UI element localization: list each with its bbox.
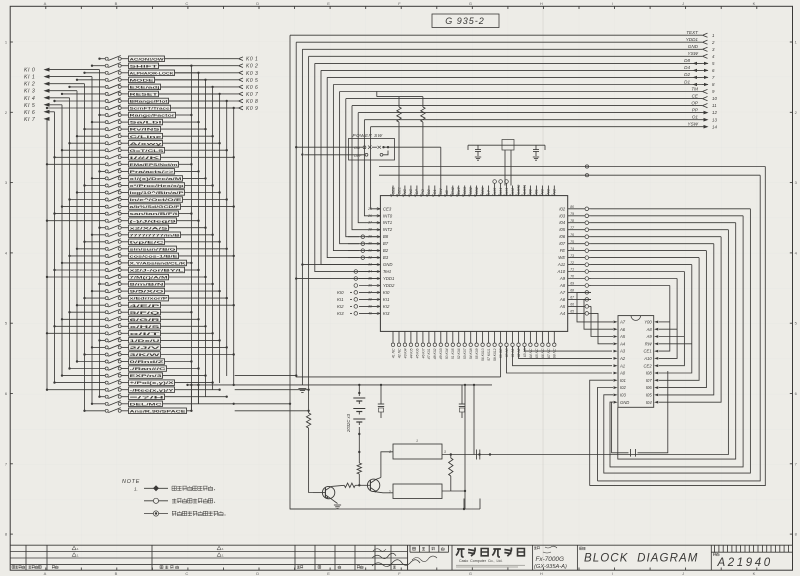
svg-text:OP: OP <box>415 189 419 195</box>
svg-text:68 NC: 68 NC <box>553 348 557 358</box>
svg-text:NC: NC <box>547 189 551 195</box>
svg-text:A/xwy: A/xwy <box>130 142 162 146</box>
svg-text:FE: FE <box>560 248 566 253</box>
svg-text:Sa/Lbl: Sa/Lbl <box>130 121 162 125</box>
svg-text:EMa/EPS/Not/m: EMa/EPS/Not/m <box>130 163 178 167</box>
svg-text:A10: A10 <box>557 269 566 274</box>
svg-text:E: E <box>327 1 330 6</box>
svg-text:12: 12 <box>461 194 465 198</box>
svg-text:WE: WE <box>558 255 565 260</box>
svg-text:K0 2: K0 2 <box>246 64 258 70</box>
svg-text:K: K <box>753 1 756 6</box>
svg-text:14: 14 <box>712 124 717 129</box>
svg-text:OP: OP <box>691 100 699 105</box>
svg-text:3: 3 <box>444 450 446 454</box>
svg-text:G 935-2: G 935-2 <box>445 16 485 26</box>
svg-text:x2/X/A/S: x2/X/A/S <box>130 226 170 230</box>
svg-text:A: A <box>44 571 47 576</box>
svg-text:A8: A8 <box>559 283 566 288</box>
svg-text:I08: I08 <box>646 371 652 376</box>
svg-text:O1: O1 <box>433 189 437 194</box>
svg-text:K0 8: K0 8 <box>246 99 258 105</box>
svg-text:KI3: KI3 <box>383 311 390 316</box>
svg-text:67 NC: 67 NC <box>547 348 551 358</box>
svg-text:2: 2 <box>711 40 715 45</box>
svg-text:2/J/V: 2/J/V <box>130 346 162 350</box>
svg-text:A6: A6 <box>619 327 626 332</box>
svg-text:A7: A7 <box>559 290 566 295</box>
svg-text:B8: B8 <box>383 234 389 239</box>
svg-text:21: 21 <box>407 194 411 199</box>
svg-text:x/Edr/xor/P: x/Edr/xor/P <box>130 297 169 301</box>
svg-text:12: 12 <box>712 110 717 115</box>
svg-text:5/F/Q: 5/F/Q <box>130 311 161 315</box>
svg-text:KI 2: KI 2 <box>24 82 35 88</box>
svg-text:G=T/CLS: G=T/CLS <box>130 149 165 153</box>
svg-text:B7: B7 <box>383 241 389 246</box>
svg-text:41 NC: 41 NC <box>391 348 395 358</box>
svg-text:KI2: KI2 <box>337 304 344 309</box>
svg-text:48 K02: 48 K02 <box>433 348 437 359</box>
svg-text:MODE: MODE <box>130 78 156 82</box>
svg-text:x2/J-/or/BY/L: x2/J-/or/BY/L <box>130 269 186 273</box>
svg-text:CB2: CB2 <box>469 186 473 194</box>
svg-text:x*/Proc/Hex/x/p: x*/Proc/Hex/x/p <box>130 184 184 188</box>
svg-text:INT2: INT2 <box>383 227 393 232</box>
svg-text:D2: D2 <box>684 72 690 77</box>
svg-text:AC/ON!/OW: AC/ON!/OW <box>130 57 165 61</box>
svg-text:22: 22 <box>401 194 405 199</box>
svg-text:7777/7777/in/B: 7777/7777/in/B <box>130 233 181 237</box>
svg-text:A4: A4 <box>559 311 566 316</box>
svg-text:GND: GND <box>620 400 629 405</box>
svg-text:+/Pol(x,y)/X: +/Pol(x,y)/X <box>130 381 176 385</box>
svg-text:ln/e^/Oct/O/E: ln/e^/Oct/O/E <box>130 198 184 202</box>
svg-text:19: 19 <box>419 194 423 198</box>
svg-text:KI 3: KI 3 <box>24 89 35 95</box>
svg-text:K0 6: K0 6 <box>246 85 258 91</box>
svg-text:ALPHA/OR-LOCK: ALPHA/OR-LOCK <box>130 71 175 75</box>
svg-text:D: D <box>256 571 259 576</box>
svg-text:C: C <box>185 1 188 6</box>
svg-text:RW: RW <box>645 341 653 346</box>
svg-text:GND: GND <box>383 262 393 267</box>
svg-text:1: 1 <box>416 439 418 443</box>
svg-text:A4: A4 <box>619 341 626 346</box>
svg-text:(-)/J/deg/9: (-)/J/deg/9 <box>130 219 176 223</box>
svg-text:I02: I02 <box>620 385 626 390</box>
svg-text:./Ran#/C: ./Ran#/C <box>130 367 167 371</box>
svg-text:11: 11 <box>712 103 717 108</box>
svg-text:-/Rec(x,y)/Y: -/Rec(x,y)/Y <box>130 388 176 392</box>
svg-text:A0: A0 <box>619 371 626 376</box>
svg-text:27: 27 <box>367 221 372 225</box>
svg-text:2032C x3: 2032C x3 <box>346 413 351 433</box>
svg-text:H: H <box>540 571 543 576</box>
svg-text:2: 2 <box>521 194 525 197</box>
svg-text:A1: A1 <box>619 363 625 368</box>
svg-text:Y00: Y00 <box>644 320 652 325</box>
svg-text:4/E/P: 4/E/P <box>130 304 162 308</box>
svg-text:O1: O1 <box>692 115 699 120</box>
svg-text:I01: I01 <box>535 189 539 194</box>
svg-text:D4: D4 <box>684 65 690 70</box>
svg-text:2: 2 <box>388 490 391 494</box>
svg-text:YDD1: YDD1 <box>383 276 395 281</box>
svg-text:NC: NC <box>541 189 545 195</box>
svg-text:RESET: RESET <box>130 93 160 97</box>
svg-text:A9: A9 <box>559 276 566 281</box>
svg-text:Fx-7000G: Fx-7000G <box>536 556 564 563</box>
svg-text:Rv/INS: Rv/INS <box>130 128 162 132</box>
svg-text:KI1: KI1 <box>337 297 344 302</box>
svg-text:J: J <box>682 1 684 6</box>
svg-text:28: 28 <box>367 228 372 232</box>
svg-text:26: 26 <box>367 214 372 218</box>
svg-text:(GX-935A-A): (GX-935A-A) <box>534 564 567 570</box>
svg-text:san/tan/B/F/t: san/tan/B/F/t <box>130 212 180 216</box>
svg-text:OST1: OST1 <box>523 185 527 195</box>
svg-text:EXE/adj: EXE/adj <box>130 86 160 90</box>
svg-text:x/H/S: x/H/S <box>130 325 162 329</box>
svg-text:D: D <box>256 1 259 6</box>
svg-text:I00: I00 <box>529 188 533 194</box>
svg-text:POWER SW: POWER SW <box>353 133 383 138</box>
svg-text:CB1: CB1 <box>481 187 485 194</box>
svg-text:J: J <box>682 571 684 576</box>
svg-text:E: E <box>327 571 330 576</box>
svg-text:42 NC: 42 NC <box>397 348 401 358</box>
svg-text:14: 14 <box>449 194 453 198</box>
svg-text:CE1: CE1 <box>397 187 401 194</box>
svg-text:i/#/K: i/#/K <box>130 156 162 160</box>
svg-text:A: A <box>44 1 47 6</box>
svg-text:13: 13 <box>455 194 459 198</box>
svg-text:45 KI6: 45 KI6 <box>415 348 419 358</box>
svg-text:I04: I04 <box>646 400 652 405</box>
svg-text:A10: A10 <box>643 356 652 361</box>
svg-text:65 NC: 65 NC <box>535 348 539 358</box>
svg-text:10: 10 <box>712 96 717 101</box>
svg-text:YSW: YSW <box>688 51 699 56</box>
svg-text:KI0: KI0 <box>383 290 390 295</box>
svg-text:K0 5: K0 5 <box>246 78 258 84</box>
svg-text:KI 6: KI 6 <box>24 110 35 116</box>
svg-text:YDD2: YDD2 <box>383 283 395 288</box>
svg-text:YDD1: YDD1 <box>686 37 699 42</box>
svg-text:18: 18 <box>425 194 429 198</box>
svg-text:KI2: KI2 <box>383 304 390 309</box>
svg-text:G: G <box>469 1 472 6</box>
svg-text:cos/cos-1/B/E: cos/cos-1/B/E <box>130 255 179 259</box>
svg-text:23: 23 <box>395 194 399 199</box>
svg-text:15: 15 <box>443 194 447 198</box>
svg-text:A11: A11 <box>557 262 566 267</box>
svg-text:ON: ON <box>354 146 360 150</box>
svg-text:D1: D1 <box>684 79 690 84</box>
svg-text:53 K07: 53 K07 <box>463 348 467 359</box>
svg-text:I06: I06 <box>646 385 652 390</box>
svg-text:I03: I03 <box>559 213 566 218</box>
svg-text:52 K06: 52 K06 <box>457 348 461 359</box>
svg-text:TM: TM <box>691 86 698 91</box>
svg-text:56 K010: 56 K010 <box>481 348 485 361</box>
svg-text:ScrnFT/Trace: ScrnFT/Trace <box>130 107 170 111</box>
svg-text:I05: I05 <box>559 227 566 232</box>
svg-text:C/Line: C/Line <box>130 135 162 139</box>
svg-text:NC: NC <box>403 189 407 195</box>
svg-text:D8: D8 <box>684 58 690 63</box>
svg-text:49 K03: 49 K03 <box>439 348 443 359</box>
svg-text:SHIFT: SHIFT <box>130 64 160 68</box>
svg-text:KI3: KI3 <box>337 311 344 316</box>
svg-text:Ans/R.90/SPACE: Ans/R.90/SPACE <box>130 409 187 413</box>
svg-text:CE: CE <box>692 93 699 98</box>
svg-text:6/G/R: 6/G/R <box>130 318 161 322</box>
svg-text:A6: A6 <box>559 297 566 302</box>
svg-text:54 K08: 54 K08 <box>469 348 473 359</box>
svg-text:I01: I01 <box>620 378 626 383</box>
svg-text:KI 4: KI 4 <box>24 96 35 102</box>
svg-text:sin/sun/7B/G: sin/sun/7B/G <box>130 247 177 251</box>
svg-text:K0 3: K0 3 <box>246 71 258 77</box>
svg-text:47 K01: 47 K01 <box>427 348 431 359</box>
svg-text:I04: I04 <box>559 220 566 225</box>
svg-text:11: 11 <box>467 194 471 197</box>
svg-text:66 NC: 66 NC <box>541 348 545 358</box>
svg-text:A8: A8 <box>646 327 653 332</box>
svg-text:25: 25 <box>367 207 372 211</box>
svg-text:I: I <box>612 1 613 6</box>
svg-text:BLOCK DIAGRAM: BLOCK DIAGRAM <box>584 553 698 565</box>
svg-text:13: 13 <box>712 117 717 122</box>
svg-text:B3: B3 <box>383 255 389 260</box>
svg-text:NC: NC <box>409 189 413 195</box>
svg-text:O2: O2 <box>427 189 431 195</box>
svg-text:SW: SW <box>439 188 443 195</box>
svg-text:33: 33 <box>368 263 372 267</box>
svg-text:DEL/MC: DEL/MC <box>130 402 163 406</box>
svg-text:A3: A3 <box>619 349 626 354</box>
svg-text:44 KI5: 44 KI5 <box>409 348 413 358</box>
svg-text:58 K012: 58 K012 <box>493 348 497 361</box>
svg-text:log/10^/Bin/a/P: log/10^/Bin/a/P <box>130 191 185 195</box>
svg-text:tvp/E/C: tvp/E/C <box>130 240 165 244</box>
svg-text:X.Y/Abs/and/CL/K: X.Y/Abs/and/CL/K <box>130 262 187 266</box>
svg-text:KI 5: KI 5 <box>24 103 35 109</box>
svg-text:TEXT: TEXT <box>686 30 699 35</box>
svg-text:8/m/B/N: 8/m/B/N <box>130 283 165 287</box>
svg-text:1/Dx/U: 1/Dx/U <box>130 339 161 343</box>
svg-text:Test: Test <box>383 269 392 274</box>
svg-text:50 K04: 50 K04 <box>445 348 449 359</box>
svg-text:10: 10 <box>473 194 477 198</box>
svg-text:K: K <box>753 571 756 576</box>
svg-text:PO: PO <box>421 189 425 195</box>
svg-text:GND: GND <box>688 44 699 49</box>
svg-text:EXP/n/3: EXP/n/3 <box>130 374 162 378</box>
svg-text:INT1: INT1 <box>383 220 393 225</box>
svg-text:o/I/T: o/I/T <box>130 332 164 336</box>
svg-text:INT0: INT0 <box>383 213 393 218</box>
svg-text:PP: PP <box>692 107 699 112</box>
svg-text:EXT: EXT <box>457 186 461 194</box>
svg-text:CE3: CE3 <box>383 206 392 211</box>
svg-text:NC: NC <box>553 189 557 195</box>
svg-text:CE2: CE2 <box>391 186 395 194</box>
svg-text:CB3: CB3 <box>463 186 467 194</box>
svg-text:KI 0: KI 0 <box>24 68 35 74</box>
svg-text:KI0: KI0 <box>337 290 344 295</box>
svg-text:OST2: OST2 <box>517 184 521 195</box>
svg-text:Range/Factor: Range/Factor <box>130 114 176 118</box>
svg-text:I07: I07 <box>559 241 566 246</box>
svg-text:17: 17 <box>431 194 435 198</box>
svg-text:16: 16 <box>437 194 441 198</box>
svg-text:H: H <box>540 1 543 6</box>
svg-text:A9: A9 <box>646 334 653 339</box>
svg-text:75: 75 <box>570 240 574 244</box>
svg-text:46 KI7: 46 KI7 <box>421 348 425 358</box>
svg-text:24: 24 <box>389 194 393 199</box>
svg-text:KI 7: KI 7 <box>24 117 36 123</box>
svg-text:7/M(r)/A/M: 7/M(r)/A/M <box>130 276 168 280</box>
svg-text:A5: A5 <box>619 334 626 339</box>
svg-text:I02: I02 <box>559 206 566 211</box>
svg-text:55 K09: 55 K09 <box>475 348 479 359</box>
svg-text:1.: 1. <box>134 487 138 492</box>
svg-text:K0 7: K0 7 <box>246 92 258 98</box>
svg-text:9/5/X/O: 9/5/X/O <box>130 290 165 294</box>
svg-text:CE1: CE1 <box>644 349 652 354</box>
svg-text:KI1: KI1 <box>383 297 390 302</box>
svg-text:A2: A2 <box>619 356 626 361</box>
svg-text:I: I <box>612 571 613 576</box>
svg-text:CB2: CB2 <box>475 186 479 194</box>
svg-text:I07: I07 <box>646 378 652 383</box>
svg-text:KI 1: KI 1 <box>24 75 35 81</box>
svg-text:K0 1: K0 1 <box>246 57 258 63</box>
svg-text:51 K05: 51 K05 <box>451 348 455 359</box>
svg-text:3/K/W: 3/K/W <box>130 353 162 357</box>
svg-text:B: B <box>115 1 118 6</box>
svg-text:A5: A5 <box>559 304 566 309</box>
svg-text:I03: I03 <box>620 393 626 398</box>
svg-text:0/Rnd/Z: 0/Rnd/Z <box>130 360 166 364</box>
svg-text:K0 9: K0 9 <box>246 106 258 112</box>
svg-text:YSW: YSW <box>688 122 699 127</box>
svg-text:C: C <box>185 571 188 576</box>
svg-text:64 NC: 64 NC <box>529 348 533 358</box>
svg-text:B: B <box>115 571 118 576</box>
svg-text:Pra/acts/>>: Pra/acts/>> <box>130 170 174 174</box>
svg-text:57 K011: 57 K011 <box>487 348 491 360</box>
svg-text:43 KI4: 43 KI4 <box>403 348 407 358</box>
svg-text:I06: I06 <box>559 234 566 239</box>
svg-text:G: G <box>469 571 472 576</box>
svg-text:BRange/Plot: BRange/Plot <box>130 100 170 104</box>
svg-text:EN2: EN2 <box>451 186 455 194</box>
svg-text:x!/(x)/Dec/a/M: x!/(x)/Dec/a/M <box>130 177 182 181</box>
svg-text:A7: A7 <box>619 320 626 325</box>
svg-text:I05: I05 <box>646 393 652 398</box>
svg-text:=/?/H: =/?/H <box>130 395 166 399</box>
svg-text:Casio Computer Co., Ltd.: Casio Computer Co., Ltd. <box>459 559 503 563</box>
svg-text:a/b%/Sd/GCD/F: a/b%/Sd/GCD/F <box>130 205 182 209</box>
svg-text:B2: B2 <box>383 248 389 253</box>
svg-text:NOTE: NOTE <box>122 479 140 485</box>
svg-text:A21940: A21940 <box>717 557 773 569</box>
svg-text:20: 20 <box>413 194 417 199</box>
svg-text:CE2: CE2 <box>644 363 653 368</box>
